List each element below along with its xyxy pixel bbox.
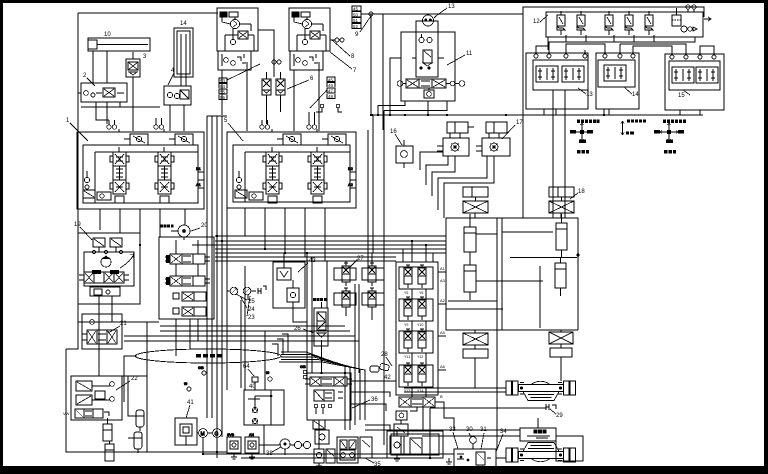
wire swing bank drop bbox=[176, 319, 198, 356]
wire supply drop x523 bbox=[522, 14, 524, 218]
wire 36 bottom drop bbox=[318, 420, 320, 444]
wire 27 links bbox=[346, 253, 372, 320]
svg-text:45: 45 bbox=[353, 7, 358, 12]
wire vrail x222 bbox=[221, 116, 223, 437]
pointer 64 bbox=[248, 369, 254, 376]
svg-text:22: 22 bbox=[131, 376, 138, 382]
wire pump1 drop bbox=[221, 70, 223, 115]
harness fan lines bbox=[279, 352, 365, 373]
wire x383 drop bbox=[382, 14, 384, 130]
valve block 21 bbox=[82, 314, 122, 349]
wire 11 left link bbox=[390, 58, 401, 115]
wire mid drop x248 bbox=[247, 295, 249, 300]
swing valve block outer bbox=[159, 237, 214, 319]
pump station 11 outer bbox=[401, 32, 455, 101]
pointer 35 bbox=[365, 458, 374, 463]
relief valve 12c bbox=[605, 11, 613, 35]
block 19 sub valve bbox=[90, 287, 120, 304]
valve top 5a bbox=[277, 134, 301, 145]
pointer 18 bbox=[570, 193, 578, 199]
spool valve 5A bbox=[263, 152, 282, 194]
pointer 38 bbox=[272, 447, 281, 452]
wire pilot feeds top bbox=[536, 42, 714, 51]
block 19 solenoid caps bbox=[92, 270, 119, 274]
pointer 21 bbox=[108, 326, 120, 333]
main valve block 1 bbox=[77, 132, 204, 209]
pump station 11 inner bbox=[412, 21, 444, 77]
svg-text:A5: A5 bbox=[440, 330, 446, 335]
pointer 13b bbox=[578, 88, 586, 94]
valve block 3 bbox=[126, 52, 140, 131]
svg-text:A6: A6 bbox=[440, 364, 446, 369]
relief valve 11 bottom bbox=[424, 88, 434, 98]
svg-text:23: 23 bbox=[248, 315, 255, 321]
motor 20 text bbox=[160, 225, 174, 228]
wheel top-right stem bbox=[560, 213, 562, 218]
valve box 37b bbox=[410, 438, 422, 454]
wire main bus y115 bbox=[372, 114, 703, 116]
wire vbundle x327 bbox=[326, 261, 328, 308]
wire vrail x217 bbox=[216, 116, 218, 452]
wire sub-bus y107 bbox=[81, 106, 160, 108]
spool 5A tail bbox=[268, 147, 277, 203]
joystick cross right side labels bbox=[654, 130, 684, 143]
wire manifold drop left bbox=[547, 42, 549, 50]
wire rear feed y436 bbox=[422, 435, 520, 437]
wire block5 drop e bbox=[324, 208, 326, 261]
pilot block 14 bbox=[598, 50, 635, 87]
spool valve 1B bbox=[155, 152, 174, 194]
wire rail header bbox=[207, 115, 227, 117]
wire riser x245 bbox=[244, 266, 246, 390]
wire block36 right links bbox=[351, 381, 396, 411]
port pair mid pumps bbox=[272, 60, 281, 64]
valve 6a bbox=[262, 72, 271, 124]
accumulator a bbox=[136, 410, 144, 431]
wire axle feed y388 bbox=[404, 387, 506, 389]
brake symbol 29 bbox=[546, 404, 556, 410]
label 26 text bbox=[313, 298, 327, 301]
wire riser x265 bbox=[264, 331, 266, 390]
wire block5 drop d bbox=[304, 208, 306, 257]
wire 19 drops bbox=[78, 304, 140, 333]
filter 12 bbox=[672, 8, 681, 26]
wire x147 extend bbox=[146, 376, 148, 452]
valve 26 bbox=[314, 302, 328, 352]
wire pilot mesh y326 bbox=[160, 325, 345, 327]
port pair block8 bbox=[330, 38, 344, 42]
sol row1 bracket bbox=[399, 267, 433, 289]
block 36 directional bbox=[305, 377, 352, 386]
wire vbundle x312 bbox=[311, 257, 313, 373]
svg-text:11: 11 bbox=[466, 51, 473, 57]
spool valve 1A bbox=[110, 152, 129, 194]
wire axle1 feed bbox=[430, 407, 546, 409]
wire block5 top ports bbox=[262, 104, 342, 132]
svg-text:47: 47 bbox=[328, 89, 333, 94]
throttle symbol mid bbox=[621, 121, 624, 135]
svg-text:17: 17 bbox=[516, 120, 523, 126]
block 43 bbox=[273, 262, 305, 308]
cylinder panel outline bbox=[446, 218, 578, 330]
transfer box rear bbox=[520, 428, 556, 441]
wire rear axle feed bbox=[537, 418, 539, 428]
wire M drop bbox=[197, 433, 203, 454]
svg-text:A1: A1 bbox=[196, 182, 202, 187]
sol row2 valve a bbox=[404, 297, 412, 320]
axle front bbox=[506, 381, 576, 401]
wire block1 drop c bbox=[139, 209, 141, 245]
relief cluster 1 bbox=[83, 171, 111, 200]
svg-text:Y9: Y9 bbox=[404, 323, 408, 327]
wire midsection left edge bbox=[383, 111, 385, 446]
axle rear bbox=[506, 443, 576, 463]
svg-text:55: 55 bbox=[220, 90, 225, 95]
spool valve 5B bbox=[308, 152, 327, 194]
svg-text:24: 24 bbox=[248, 307, 255, 313]
block 36 sub bbox=[313, 420, 325, 429]
svg-text:13: 13 bbox=[448, 4, 455, 10]
wire hbundle y253 bbox=[215, 252, 446, 254]
directional valve 11 bbox=[397, 79, 465, 88]
bus junction dots bbox=[371, 114, 605, 116]
border frame bottom bbox=[0, 466, 768, 474]
svg-text:G: G bbox=[215, 432, 219, 438]
swing valve v4 bbox=[173, 307, 206, 316]
block 36 outer bbox=[307, 373, 351, 420]
port labels A bbox=[440, 266, 446, 399]
spool 1B tail bbox=[160, 147, 169, 203]
block 36 ports bbox=[314, 404, 332, 414]
svg-text:34: 34 bbox=[500, 429, 507, 435]
node junction x371 bbox=[369, 12, 373, 16]
block 5 right port bbox=[348, 166, 356, 188]
svg-text:64: 64 bbox=[243, 364, 250, 370]
block 19 outer bbox=[78, 233, 140, 304]
wire ellipse left drop bbox=[124, 356, 137, 402]
svg-text:51: 51 bbox=[353, 18, 358, 23]
svg-text:Y5: Y5 bbox=[404, 291, 408, 295]
svg-text:14: 14 bbox=[180, 21, 187, 27]
fan motor unit B 17 bbox=[476, 122, 510, 156]
pointer 45 bbox=[310, 90, 327, 108]
svg-text:36: 36 bbox=[371, 397, 378, 403]
wire bottom buses bbox=[122, 408, 454, 458]
harness text bbox=[196, 354, 222, 357]
valve block 4 bbox=[164, 86, 191, 131]
pointer 43 bbox=[298, 263, 308, 272]
pointer 28 bbox=[386, 357, 392, 366]
solenoid bank outer bbox=[396, 262, 438, 395]
ground SVB bbox=[231, 453, 237, 459]
wire 40 drop bbox=[263, 425, 265, 454]
valve block 2 bbox=[81, 83, 127, 124]
wire cluster to axle bbox=[496, 457, 506, 459]
cylinder 4 vertical accumulator bbox=[170, 28, 193, 86]
svg-text:52: 52 bbox=[353, 24, 358, 29]
wire 27 center risers bbox=[355, 284, 359, 373]
sol bank bottom valve bbox=[394, 411, 408, 436]
svg-text:54: 54 bbox=[220, 84, 225, 89]
svg-text:GB: GB bbox=[198, 365, 204, 370]
valve top 1b bbox=[169, 134, 193, 145]
wire manifold internal drops bbox=[566, 35, 654, 42]
wire block5 drop c bbox=[284, 208, 286, 253]
wire block19 to21 bbox=[98, 333, 100, 352]
gauges above 12 bbox=[686, 5, 696, 12]
valve box 44 bbox=[315, 430, 329, 444]
bottom-left enclosure bbox=[66, 349, 122, 452]
wire 21 down bbox=[98, 348, 100, 376]
fan motor unit A bbox=[437, 122, 474, 156]
svg-text:A2: A2 bbox=[440, 298, 446, 303]
relief valve 12e bbox=[645, 11, 653, 35]
svg-text:45: 45 bbox=[328, 77, 333, 82]
wire axle feed y392 bbox=[404, 391, 506, 393]
pilot block 15 insert b bbox=[696, 67, 718, 83]
svg-text:10: 10 bbox=[104, 32, 111, 38]
svg-text:56: 56 bbox=[220, 95, 225, 100]
wire swing drops bbox=[176, 237, 198, 276]
accumulator b bbox=[134, 432, 142, 453]
pointer 6 bbox=[287, 80, 309, 89]
manifold 12 outer bbox=[546, 12, 703, 37]
wire sub-bus drops bbox=[96, 102, 120, 107]
block 19 directional valve bbox=[79, 272, 129, 283]
wire block1 drop a bbox=[99, 209, 101, 230]
pointer 9 bbox=[360, 16, 371, 32]
port circles block1 top bbox=[107, 125, 164, 129]
vent marks 23 bbox=[258, 286, 266, 294]
pilot block 13 bbox=[533, 50, 588, 90]
box SVB bbox=[227, 433, 241, 453]
wire ring sol cluster inner bbox=[391, 434, 439, 455]
svg-text:SVB: SVB bbox=[227, 433, 235, 437]
wire sol bank top links bbox=[403, 241, 433, 262]
pump unit 7 bbox=[217, 8, 258, 70]
valve CD 12 bbox=[681, 26, 697, 32]
wire hbundle y245 bbox=[192, 244, 446, 246]
wire hbundle y261 bbox=[215, 260, 396, 262]
block 30-34 cluster bbox=[454, 437, 496, 468]
wire 22 region riser bbox=[122, 322, 147, 376]
block 1 inner frame bbox=[83, 145, 198, 203]
ground 37 bbox=[394, 454, 400, 461]
wire wheel stub left bbox=[474, 358, 476, 388]
svg-text:30: 30 bbox=[466, 427, 473, 433]
wheel unit top-left bbox=[463, 187, 488, 213]
pointer 20 bbox=[191, 228, 200, 231]
wire left main rail bbox=[66, 13, 78, 349]
svg-text:A1: A1 bbox=[440, 266, 446, 271]
swing valve v2 bbox=[165, 276, 210, 286]
pointer 15 bbox=[683, 90, 690, 95]
pointer 36 bbox=[352, 400, 370, 408]
pump unit 8 bbox=[289, 8, 330, 70]
svg-text:48: 48 bbox=[328, 94, 333, 99]
wire block1 drop e bbox=[184, 209, 186, 225]
svg-text:VW: VW bbox=[63, 411, 70, 416]
panel cross wires bbox=[446, 232, 579, 328]
pointer 19 bbox=[80, 227, 92, 240]
svg-text:15: 15 bbox=[678, 93, 685, 99]
wire gauge link bbox=[227, 290, 230, 292]
node f9 left bbox=[184, 381, 191, 391]
throttle text top bbox=[627, 120, 646, 123]
valve block 22 bbox=[71, 376, 122, 420]
wire x371 drop bbox=[370, 14, 372, 115]
valve VW bbox=[75, 409, 109, 418]
joystick cross right text top bbox=[663, 120, 686, 123]
svg-text:29: 29 bbox=[556, 413, 563, 419]
wire nested corners ellipse right bbox=[272, 334, 288, 356]
small cylinder a bbox=[103, 418, 112, 441]
wire pump link bbox=[258, 30, 274, 77]
wire pump2 drop2 bbox=[318, 62, 320, 131]
spool 1A tail bbox=[115, 147, 124, 203]
wire vbundle x345 bbox=[344, 373, 346, 430]
pointer 7 bbox=[330, 52, 352, 69]
svg-text:18: 18 bbox=[578, 189, 585, 195]
pointer 23-25 bbox=[236, 294, 250, 316]
pointer 12 bbox=[540, 15, 548, 22]
svg-text:M: M bbox=[201, 432, 205, 438]
block 19 inner frame bbox=[84, 252, 134, 286]
border frame left bbox=[0, 0, 3, 474]
pointer 30 cluster bbox=[453, 432, 503, 452]
wire vbundle x358 bbox=[354, 373, 356, 425]
connector 42 bbox=[370, 363, 390, 372]
wire vbundle x362 bbox=[359, 373, 361, 420]
pilot block 13 insert a bbox=[536, 66, 558, 82]
small valve block a bbox=[314, 444, 324, 463]
pilot block 13 outer bbox=[526, 53, 588, 109]
cylinder C4 bbox=[555, 258, 566, 296]
wire wheel stub right bbox=[560, 357, 562, 381]
throttle text mid bbox=[626, 132, 634, 135]
joystick cross right handle label bbox=[664, 150, 676, 154]
svg-text:35: 35 bbox=[374, 462, 381, 468]
wire pilot14 short drops bbox=[604, 109, 609, 115]
block 35 bbox=[337, 437, 372, 463]
pulley 38 bbox=[280, 439, 290, 455]
pointer 27 bbox=[350, 260, 357, 267]
svg-text:21: 21 bbox=[120, 321, 127, 327]
wire block5 drop b bbox=[264, 208, 266, 249]
wheel unit bottom-left bbox=[463, 330, 488, 358]
swing unit 16 bbox=[396, 140, 413, 168]
wire acc links bbox=[128, 376, 140, 438]
port circles block5 top bbox=[260, 125, 317, 129]
wire pilot mesh y341 bbox=[124, 340, 359, 342]
table 45-52 top bbox=[352, 6, 361, 28]
ground AN bbox=[249, 453, 255, 459]
swing valve solenoid caps bbox=[166, 255, 171, 285]
svg-text:Y6: Y6 bbox=[419, 291, 423, 295]
small cylinder b bbox=[105, 441, 114, 461]
block 35 inner detail bbox=[340, 450, 355, 460]
wire top bus y7 bbox=[523, 7, 704, 17]
joystick cross left bbox=[573, 123, 591, 141]
svg-text:28: 28 bbox=[381, 352, 388, 358]
wire right risers bbox=[365, 402, 454, 430]
svg-text:Y12: Y12 bbox=[417, 355, 423, 359]
table 45-48 bbox=[327, 77, 335, 98]
wire vbundle x350 bbox=[349, 373, 351, 430]
svg-text:B2: B2 bbox=[348, 166, 354, 171]
wire top-left header bbox=[78, 12, 218, 14]
pointer 13 bbox=[434, 8, 447, 18]
wire pilot13 drops bbox=[544, 90, 565, 218]
block 41 bbox=[175, 418, 197, 445]
pointer 4 bbox=[168, 73, 174, 85]
block 19 pump bbox=[101, 254, 134, 268]
wire pilot mesh y336 bbox=[124, 335, 355, 337]
wire pump1 drop2 bbox=[246, 62, 248, 131]
valve top 5b bbox=[322, 134, 346, 145]
pointer 53 bbox=[227, 64, 260, 80]
valve group 27 left pair bbox=[334, 263, 356, 311]
wheel top-left stem bbox=[474, 213, 476, 218]
wire G drop bbox=[216, 437, 218, 458]
sol labels Y bbox=[404, 291, 423, 393]
svg-text:16: 16 bbox=[390, 129, 397, 135]
joystick cross left handle label bbox=[577, 150, 589, 154]
valve 6b bbox=[276, 72, 285, 112]
relief valve 12a bbox=[557, 11, 565, 35]
wire x212 riser bbox=[211, 116, 213, 418]
wire 11 drops bbox=[378, 101, 447, 115]
svg-text:50: 50 bbox=[353, 12, 358, 17]
pilot block 15 outer bbox=[665, 54, 724, 110]
wire riser x497 bbox=[496, 252, 498, 449]
relief valve 12d bbox=[625, 11, 633, 35]
wire rear feed horiz bbox=[365, 429, 520, 431]
connector 64 bbox=[252, 377, 258, 390]
svg-text:41: 41 bbox=[187, 400, 194, 406]
main valve block 5 bbox=[227, 132, 356, 208]
valve group 27 right pair bbox=[362, 263, 384, 311]
pilot block 14 insert bbox=[604, 65, 626, 81]
node GB bbox=[300, 364, 307, 379]
box AN bbox=[245, 433, 259, 453]
svg-text:GB: GB bbox=[300, 364, 306, 369]
wire manifold collector bbox=[548, 37, 695, 42]
svg-text:B: B bbox=[440, 394, 443, 399]
pointer 1 bbox=[70, 123, 88, 141]
wire vbundle x307 bbox=[306, 253, 308, 373]
wire sol bank stubs bbox=[412, 272, 446, 397]
pilot block 14 outer bbox=[596, 53, 639, 109]
svg-text:46: 46 bbox=[328, 83, 333, 88]
svg-text:40: 40 bbox=[249, 384, 256, 390]
wire top bus y14 bbox=[361, 13, 523, 15]
wire hbundle y236 bbox=[215, 235, 446, 237]
border frame right bbox=[764, 0, 768, 474]
pilot block 15 insert a bbox=[672, 67, 694, 83]
pointer 2 bbox=[87, 78, 95, 86]
pointer 29 bbox=[550, 409, 556, 414]
wire right rail x368 bbox=[367, 130, 369, 268]
sol row3 valve b bbox=[418, 329, 426, 352]
sol row3 bracket bbox=[399, 331, 433, 353]
label g9 bbox=[266, 370, 272, 381]
wire sol bottom drop bbox=[401, 407, 423, 454]
wire block1 drop b bbox=[119, 209, 121, 233]
cylinder 10 bbox=[88, 38, 150, 83]
arrow node 12 right bbox=[704, 17, 711, 21]
pilot block 13 insert b bbox=[562, 66, 584, 82]
